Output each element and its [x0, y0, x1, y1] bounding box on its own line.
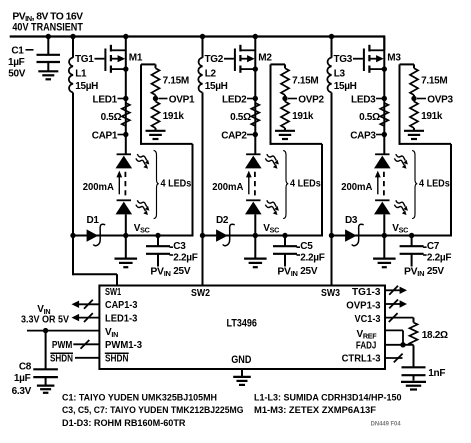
svg-text:TG1-3: TG1-3 — [352, 287, 381, 298]
svg-text:GND: GND — [231, 354, 251, 366]
svg-text:1nF: 1nF — [428, 368, 445, 379]
svg-text:LED1: LED1 — [93, 94, 118, 105]
svg-text:0.5Ω: 0.5Ω — [101, 112, 122, 123]
svg-text:2.2µF: 2.2µF — [300, 252, 324, 263]
svg-text:3.3V OR 5V: 3.3V OR 5V — [21, 314, 69, 325]
svg-text:7.15M: 7.15M — [421, 75, 447, 86]
svg-text:L3: L3 — [334, 68, 346, 79]
svg-text:VC1-3: VC1-3 — [355, 314, 381, 325]
svg-text:2.2µF: 2.2µF — [173, 252, 197, 263]
svg-text:DN449 F04: DN449 F04 — [371, 421, 402, 428]
svg-text:M1-M3: ZETEX ZXMP6A13F: M1-M3: ZETEX ZXMP6A13F — [254, 405, 376, 415]
svg-text:CTRL1-3: CTRL1-3 — [342, 354, 381, 365]
svg-text:15µH: 15µH — [334, 81, 357, 92]
svg-text:C8: C8 — [19, 362, 32, 373]
svg-text:18.2Ω: 18.2Ω — [422, 330, 448, 341]
svg-text:PWM1-3: PWM1-3 — [105, 340, 142, 351]
svg-text:M1: M1 — [129, 53, 143, 64]
svg-text:0.5Ω: 0.5Ω — [230, 112, 251, 123]
svg-text:191k: 191k — [163, 111, 185, 122]
svg-text:M3: M3 — [387, 53, 401, 64]
svg-text:OVP3: OVP3 — [427, 94, 453, 105]
svg-text:D1: D1 — [87, 215, 100, 226]
svg-text:1µF: 1µF — [8, 57, 25, 68]
svg-text:L1: L1 — [75, 68, 87, 79]
svg-text:SW3: SW3 — [321, 288, 340, 299]
svg-text:FADJ: FADJ — [356, 341, 376, 352]
svg-text:OVP2: OVP2 — [298, 94, 324, 105]
svg-text:200mA: 200mA — [341, 182, 372, 193]
svg-text:191k: 191k — [421, 111, 443, 122]
svg-text:PWM: PWM — [52, 340, 72, 351]
svg-text:C5: C5 — [300, 241, 313, 252]
svg-text:200mA: 200mA — [83, 182, 114, 193]
svg-text:TG1: TG1 — [75, 54, 94, 65]
svg-text:M2: M2 — [258, 53, 272, 64]
svg-text:4 LEDs: 4 LEDs — [419, 179, 450, 190]
svg-text:6.3V: 6.3V — [12, 386, 32, 397]
svg-text:C3, C5, C7: TAIYO YUDEN TMK212: C3, C5, C7: TAIYO YUDEN TMK212BJ225MG — [62, 405, 244, 415]
svg-text:4 LEDs: 4 LEDs — [161, 179, 192, 190]
svg-text:LED2: LED2 — [222, 94, 247, 105]
svg-text:7.15M: 7.15M — [292, 75, 318, 86]
svg-text:0.5Ω: 0.5Ω — [359, 112, 380, 123]
svg-text:15µH: 15µH — [75, 81, 98, 92]
svg-text:1µF: 1µF — [14, 373, 31, 384]
svg-text:40V TRANSIENT: 40V TRANSIENT — [12, 22, 83, 34]
svg-text:C3: C3 — [173, 241, 186, 252]
svg-text:CAP3: CAP3 — [350, 130, 376, 141]
svg-text:OVP1: OVP1 — [169, 94, 195, 105]
svg-text:SHDN: SHDN — [50, 353, 73, 364]
svg-text:LED3: LED3 — [351, 94, 376, 105]
svg-text:OVP1-3: OVP1-3 — [346, 301, 381, 312]
svg-text:LT3496: LT3496 — [227, 318, 257, 330]
svg-text:50V: 50V — [8, 68, 26, 79]
svg-text:LED1-3: LED1-3 — [105, 313, 138, 324]
svg-text:CAP1: CAP1 — [92, 130, 118, 141]
svg-text:7.15M: 7.15M — [163, 75, 189, 86]
svg-text:C1: TAIYO YUDEN UMK325BJ105MH: C1: TAIYO YUDEN UMK325BJ105MH — [62, 393, 217, 403]
svg-text:L1-L3: SUMIDA CDRH3D14/HP-150: L1-L3: SUMIDA CDRH3D14/HP-150 — [254, 393, 402, 403]
svg-text:200mA: 200mA — [212, 182, 243, 193]
svg-text:2.2µF: 2.2µF — [427, 252, 451, 263]
svg-text:CAP1-3: CAP1-3 — [105, 300, 138, 311]
svg-text:15µH: 15µH — [205, 81, 228, 92]
svg-text:4 LEDs: 4 LEDs — [290, 179, 321, 190]
svg-text:L2: L2 — [205, 68, 217, 79]
svg-text:191k: 191k — [292, 111, 314, 122]
svg-text:25V: 25V — [300, 266, 318, 277]
svg-text:TG2: TG2 — [204, 54, 223, 65]
svg-text:D3: D3 — [345, 215, 358, 226]
svg-text:TG3: TG3 — [333, 54, 352, 65]
svg-text:SHDN: SHDN — [105, 354, 129, 365]
svg-text:SW2: SW2 — [191, 288, 210, 299]
svg-text:SW1: SW1 — [105, 287, 122, 298]
svg-text:CAP2: CAP2 — [221, 130, 247, 141]
svg-text:D2: D2 — [216, 215, 229, 226]
svg-text:25V: 25V — [173, 266, 191, 277]
svg-text:C1: C1 — [11, 46, 24, 57]
svg-text:D1-D3: ROHM RB160M-60TR: D1-D3: ROHM RB160M-60TR — [62, 418, 186, 428]
svg-text:C7: C7 — [427, 241, 440, 252]
svg-text:25V: 25V — [427, 266, 445, 277]
